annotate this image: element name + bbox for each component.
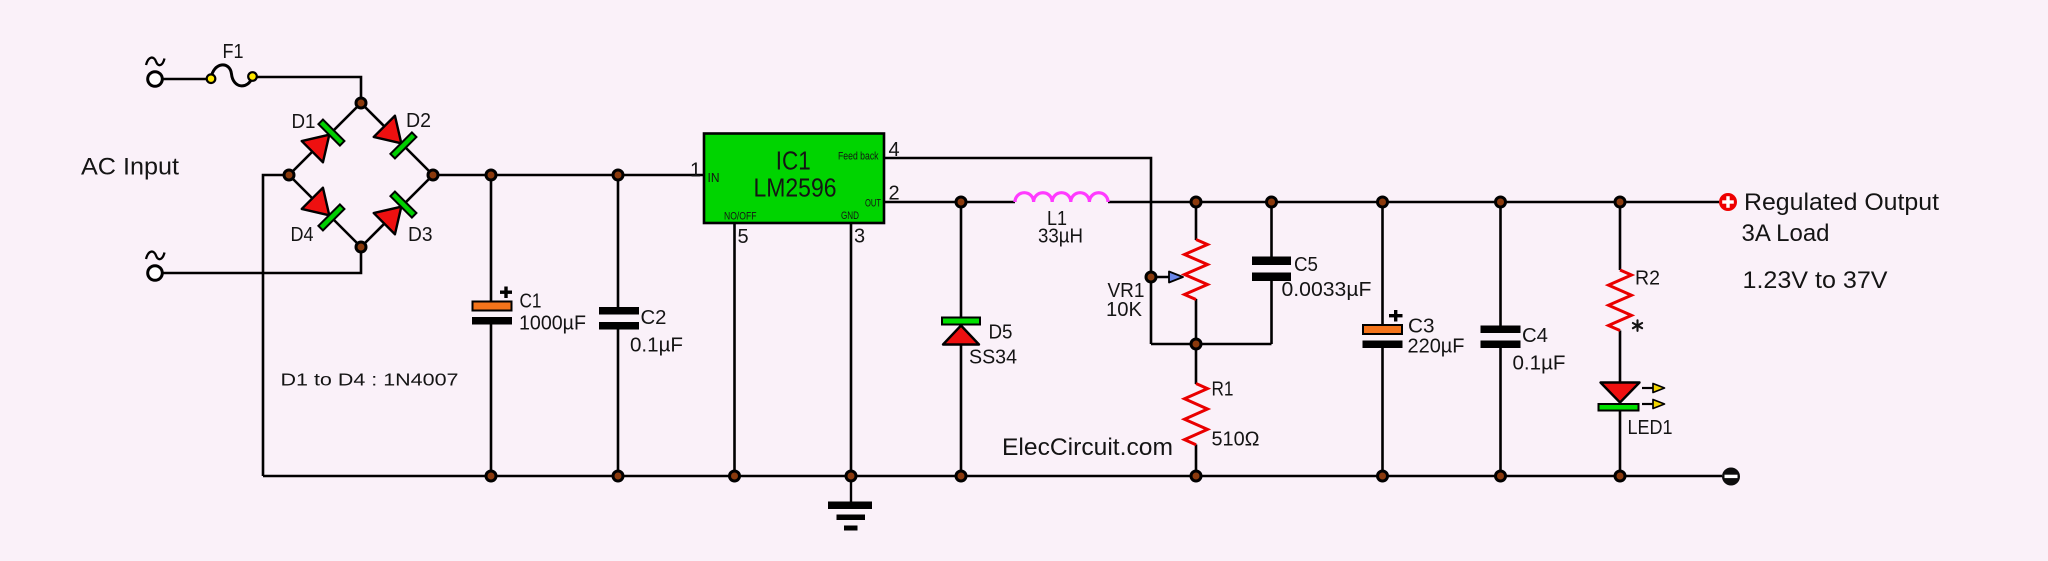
- potentiometer VR1 wiper arrow: [1169, 272, 1183, 283]
- wire R1 bottom: [1195, 445, 1198, 477]
- svg-text:220µF: 220µF: [1408, 336, 1465, 358]
- svg-text:NO/OFF: NO/OFF: [724, 211, 757, 223]
- svg-text:1: 1: [690, 160, 701, 182]
- wire pin4 feedback: [884, 158, 1151, 344]
- node C3 top junction: [1378, 197, 1388, 207]
- svg-text:D3: D3: [408, 224, 433, 246]
- svg-text:5: 5: [738, 226, 749, 248]
- wire bottom rail: [263, 475, 1722, 478]
- positive output terminal: [1719, 193, 1737, 211]
- svg-text:Regulated Output: Regulated Output: [1744, 189, 1939, 216]
- node C5 top junction: [1267, 197, 1277, 207]
- wire IN rail right node to IC pin1: [433, 174, 704, 177]
- wire C1 bottom: [490, 323, 493, 476]
- wire C1 top: [490, 175, 493, 303]
- node VR1 top junction: [1191, 197, 1201, 207]
- capacitor C1 (electrolytic 1000uF): [472, 287, 512, 325]
- node bottom bridge junction: [356, 242, 366, 252]
- node VR1 bottom junction: [1191, 339, 1201, 349]
- node D5 top junction: [956, 197, 966, 207]
- svg-text:D2: D2: [406, 110, 431, 132]
- svg-text:R1: R1: [1212, 379, 1234, 401]
- wire C3 bottom: [1381, 348, 1384, 476]
- wire C2 bottom: [617, 329, 620, 476]
- wire C3 top: [1381, 202, 1384, 326]
- node C3 bottom junction: [1378, 471, 1388, 481]
- node C1 top junction: [486, 170, 496, 180]
- svg-text:R2: R2: [1635, 268, 1660, 290]
- diode D2: [374, 116, 417, 159]
- wire D5 bottom: [960, 344, 963, 476]
- svg-text:1000µF: 1000µF: [519, 313, 586, 335]
- svg-text:4: 4: [889, 139, 900, 161]
- capacitor C2 (0.1uF): [599, 307, 639, 330]
- node LED1 bottom junction: [1615, 471, 1625, 481]
- svg-text:0.0033µF: 0.0033µF: [1282, 279, 1372, 301]
- svg-text:SS34: SS34: [969, 347, 1017, 369]
- wire VR1 wiper: [1151, 276, 1170, 279]
- wire pin3 to bottom rail: [850, 223, 853, 476]
- wire bridge edge bottom-left: [289, 175, 361, 247]
- svg-text:0.1µF: 0.1µF: [630, 335, 683, 357]
- resistor R1 zigzag: [1185, 384, 1208, 445]
- op-amp IC1 LM2596 body: [704, 134, 884, 224]
- wire C4 top: [1499, 202, 1502, 326]
- svg-text:33µH: 33µH: [1038, 226, 1083, 248]
- svg-text:C4: C4: [1522, 325, 1548, 347]
- diode D1: [302, 120, 345, 163]
- capacitor C4 (0.1uF): [1481, 326, 1521, 349]
- node R2 top junction: [1615, 197, 1625, 207]
- wire C4 bottom: [1499, 348, 1502, 476]
- svg-text:D5: D5: [989, 322, 1013, 344]
- inductor L1 coil: [1015, 193, 1108, 202]
- node ground junction: [846, 471, 856, 481]
- wire top AC terminal to fuse: [162, 78, 212, 81]
- wire OUT rail pin2 to L1: [884, 201, 1015, 204]
- fuse F1: [207, 65, 257, 86]
- svg-text:LED1: LED1: [1628, 417, 1673, 439]
- svg-text:2: 2: [889, 183, 900, 205]
- svg-text:C2: C2: [641, 307, 667, 329]
- potentiometer VR1 zigzag: [1185, 240, 1208, 300]
- node C4 top junction: [1496, 197, 1506, 207]
- wire R2 top: [1619, 202, 1622, 270]
- wire C2 top: [617, 175, 620, 308]
- wire fuse to top bridge node: [252, 77, 361, 103]
- wire VR1 bottom: [1195, 299, 1198, 344]
- svg-text:3: 3: [854, 226, 865, 248]
- wire VR1 top: [1195, 202, 1198, 240]
- svg-text:D4: D4: [291, 224, 314, 246]
- svg-text:D1 to D4 : 1N4007: D1 to D4 : 1N4007: [281, 370, 459, 390]
- wire left node to bottom rail: [263, 175, 289, 476]
- svg-text:3A Load: 3A Load: [1742, 220, 1830, 247]
- LED1 light arrow lower: [1642, 400, 1665, 409]
- capacitor C5 (0.0033uF): [1252, 257, 1291, 282]
- wire feedback lower line: [1151, 343, 1272, 346]
- wire LED1 bottom: [1619, 410, 1622, 476]
- svg-text:C5: C5: [1294, 254, 1318, 276]
- wire bottom AC terminal to bottom bridge node: [162, 247, 361, 273]
- node D5 bottom junction: [956, 471, 966, 481]
- wire OUT rail L1 to plus terminal: [1108, 201, 1719, 204]
- node top bridge junction: [356, 98, 366, 108]
- svg-text:ElecCircuit.com: ElecCircuit.com: [1002, 434, 1173, 461]
- wire bridge edge bottom-right: [361, 175, 433, 247]
- label asterisk: [1633, 320, 1642, 331]
- svg-text:C3: C3: [1408, 316, 1435, 338]
- svg-text:D1: D1: [292, 111, 316, 133]
- node C2 bottom junction: [613, 471, 623, 481]
- node C4 bottom junction: [1496, 471, 1506, 481]
- svg-text:F1: F1: [223, 41, 244, 63]
- svg-text:LM2596: LM2596: [754, 173, 837, 203]
- wire bridge edge top-right: [361, 103, 433, 175]
- wire D5 top: [960, 202, 963, 318]
- diode D3: [374, 192, 417, 235]
- svg-text:AC Input: AC Input: [81, 154, 179, 181]
- node VR1 wiper junction: [1146, 272, 1156, 282]
- diode D5 SS34: [942, 318, 980, 345]
- node C2 top junction: [613, 170, 623, 180]
- diode D4: [302, 188, 345, 231]
- wire C5 bottom: [1270, 281, 1273, 344]
- AC input terminal bottom: [146, 252, 165, 281]
- node left bridge junction: [284, 170, 294, 180]
- node pin5 bottom junction: [730, 471, 740, 481]
- wire bridge edge top-left: [289, 103, 361, 175]
- svg-text:GND: GND: [841, 210, 859, 222]
- negative output terminal: [1722, 468, 1740, 486]
- wire C5 top: [1270, 202, 1273, 258]
- svg-text:C1: C1: [520, 291, 542, 313]
- svg-text:510Ω: 510Ω: [1212, 429, 1260, 451]
- svg-text:OUT: OUT: [865, 198, 881, 210]
- svg-text:0.1µF: 0.1µF: [1513, 353, 1566, 375]
- node right bridge junction: [428, 170, 438, 180]
- ground: [828, 476, 872, 531]
- resistor R2 zigzag: [1609, 270, 1632, 331]
- svg-text:Feed back: Feed back: [838, 151, 879, 163]
- LED1: [1599, 383, 1640, 411]
- node R1 bottom junction: [1191, 471, 1201, 481]
- wire R2 to LED1: [1619, 331, 1622, 384]
- AC input terminal top: [146, 58, 165, 87]
- capacitor C3 (electrolytic 220uF): [1363, 310, 1403, 348]
- LED1 light arrow upper: [1642, 384, 1665, 393]
- svg-text:IN: IN: [708, 171, 720, 185]
- svg-text:10K: 10K: [1106, 299, 1143, 321]
- svg-text:IC1: IC1: [776, 146, 811, 176]
- svg-text:1.23V to 37V: 1.23V to 37V: [1743, 267, 1888, 294]
- node C1 bottom junction: [486, 471, 496, 481]
- wire R1 top: [1195, 344, 1198, 384]
- wire pin5 to bottom rail: [733, 223, 736, 476]
